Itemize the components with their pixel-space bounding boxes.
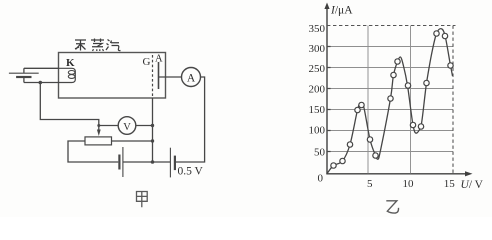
caption 乙 — [386, 201, 398, 213]
wire voltmeter left to wiper branch — [99, 125, 118, 127]
wire cathode junction down and to rheostat wiper — [40, 83, 99, 132]
svg-text:250: 250 — [309, 63, 326, 75]
junction node rheostat-grid — [151, 139, 154, 142]
gridline 150 — [327, 109, 453, 111]
gridline U=5 — [367, 26, 369, 174]
wire grid lead down to divider — [152, 98, 154, 162]
label 汞蒸汽 char 蒸 — [91, 39, 104, 52]
svg-text:0: 0 — [318, 173, 324, 185]
wiper arrow head — [97, 130, 101, 137]
svg-text:U/ V: U/ V — [461, 179, 484, 191]
battery B2 short plate (accelerating supply) — [118, 155, 120, 170]
svg-text:10: 10 — [403, 178, 415, 190]
dashed border U=15 — [452, 26, 454, 174]
junction node voltmeter-grid — [151, 124, 154, 127]
junction node (cathode to divider) — [39, 81, 43, 85]
wire rheostat right end to grid branch — [112, 140, 153, 142]
wire ammeter to anode — [159, 76, 182, 78]
wire battery B2 to center junction — [123, 161, 170, 163]
filament (heater coil at K) — [59, 68, 76, 82]
battery B1 long plate — [9, 72, 39, 74]
x axis arrow — [465, 171, 473, 176]
junction node wiper-voltmeter — [97, 124, 100, 127]
y axis arrow — [324, 3, 329, 10]
svg-text:350: 350 — [309, 23, 326, 35]
anode plate A — [158, 62, 160, 89]
svg-text:0.5 V: 0.5 V — [178, 166, 204, 178]
gridline 200 — [327, 88, 453, 90]
svg-text:A: A — [187, 73, 196, 85]
gridline 100 — [327, 130, 453, 132]
dashed border 350 level — [327, 25, 456, 27]
wire rheostat left end down to battery B2 — [68, 141, 118, 162]
voltmeter V1 — [118, 117, 136, 135]
wire voltmeter right to grid branch — [136, 125, 153, 127]
curve I-U (Franck-Hertz) — [327, 29, 453, 174]
gridline U=10 — [410, 26, 412, 174]
gridline 250 — [327, 67, 453, 69]
wire battery B3 to ammeter branch — [175, 77, 205, 162]
junction node grid-batteries — [151, 160, 155, 164]
battery B3 short plate — [174, 156, 176, 171]
svg-text:I/μA: I/μA — [330, 5, 353, 17]
svg-text:300: 300 — [309, 43, 326, 55]
data points — [331, 31, 453, 168]
battery B3 long plate (0.5 V retarding) — [169, 148, 171, 178]
rheostat R (potentiometer body) — [85, 137, 112, 145]
svg-text:K: K — [66, 57, 75, 69]
svg-text:150: 150 — [309, 104, 326, 116]
svg-text:A: A — [155, 54, 163, 65]
battery B1 (filament supply) lead wires — [23, 68, 25, 82]
ammeter A1 — [182, 68, 201, 87]
label 汞蒸汽 (mercury vapor) char 汞 — [75, 40, 86, 51]
tube envelope (mercury vapor tube) — [59, 53, 166, 99]
svg-text:5: 5 — [367, 178, 373, 190]
gridline 300 — [327, 46, 453, 48]
svg-text:200: 200 — [309, 84, 326, 96]
svg-text:G: G — [143, 56, 151, 68]
battery B2 long plate — [122, 147, 124, 177]
gridline 50 — [327, 151, 453, 153]
x axis U — [326, 173, 467, 175]
label 汞蒸汽 char 汽 — [106, 40, 121, 51]
svg-text:15: 15 — [444, 178, 456, 190]
filament top lead wire — [24, 67, 59, 69]
battery B1 short plate — [16, 76, 31, 78]
svg-text:V: V — [123, 122, 131, 133]
svg-text:100: 100 — [309, 125, 326, 137]
caption 甲 — [137, 192, 148, 208]
svg-text:50: 50 — [314, 147, 326, 159]
filament bottom lead wire — [24, 82, 59, 84]
y axis tick marks — [327, 47, 331, 152]
grid electrode G (dashed) — [152, 55, 154, 98]
y axis I — [326, 6, 328, 174]
